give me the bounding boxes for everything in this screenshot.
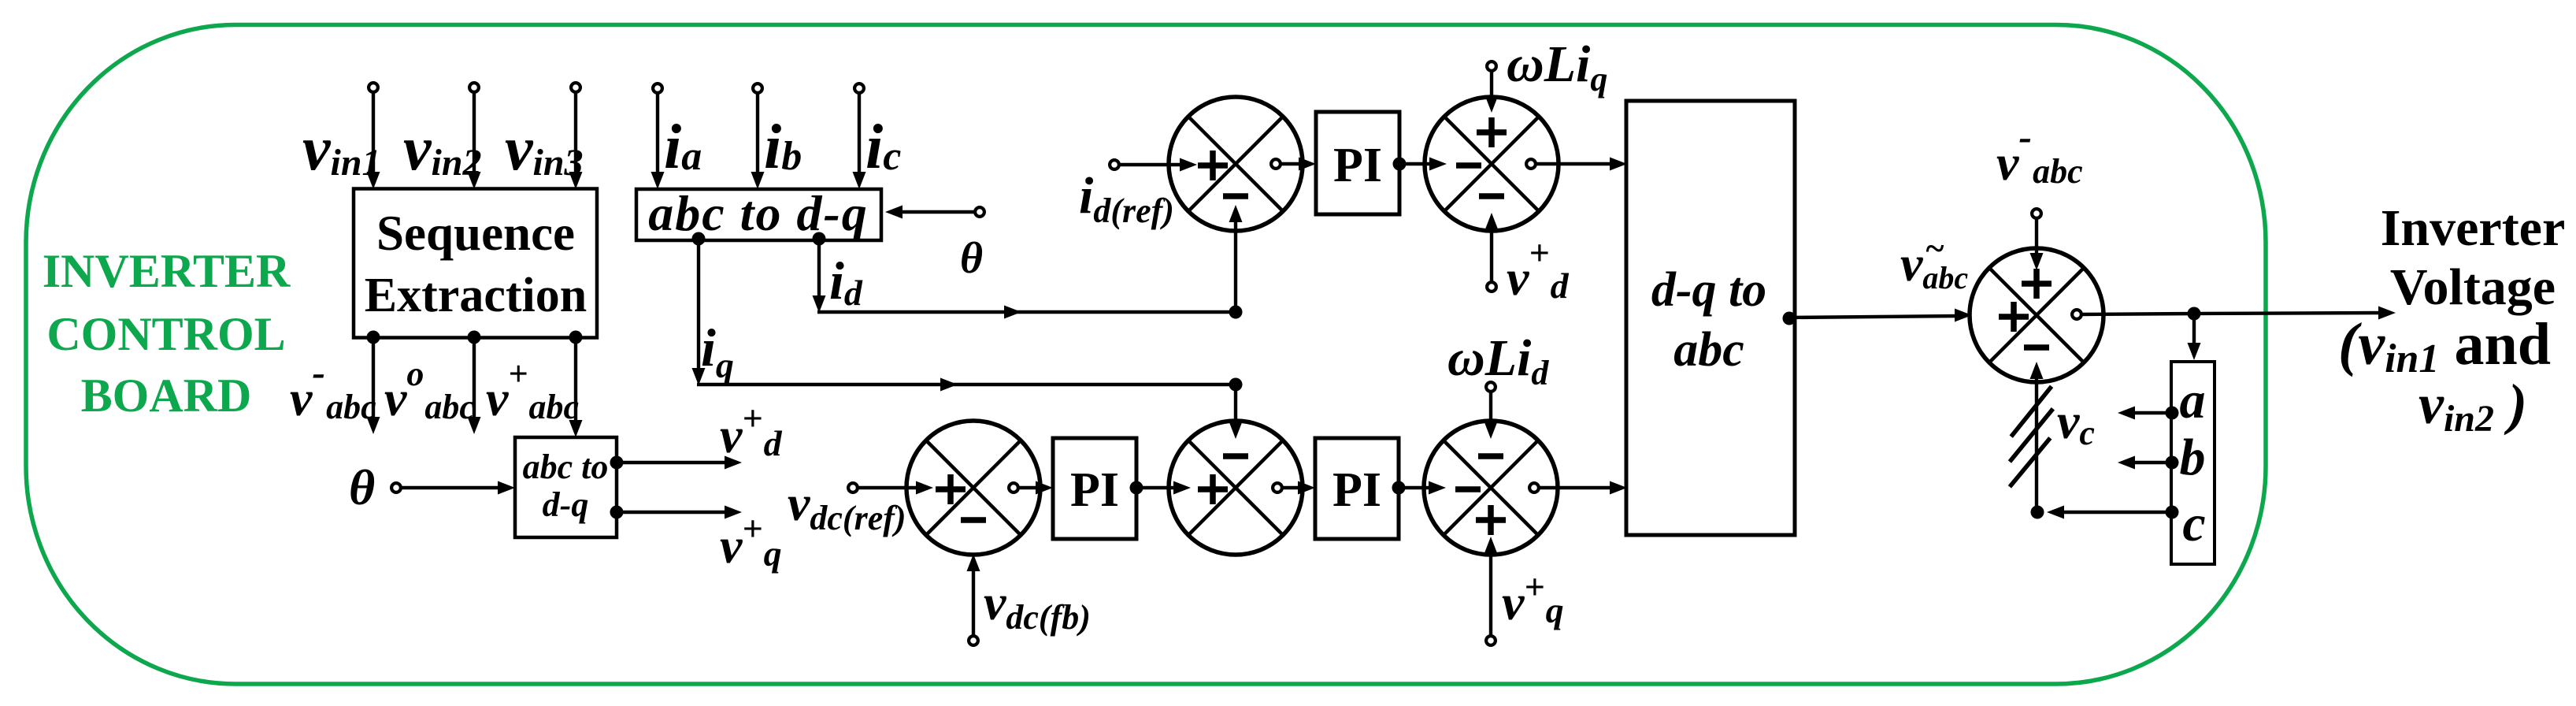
summing junction S6 (output voltage sum) bbox=[1970, 248, 2103, 382]
terminal v+d compensation input bbox=[1487, 282, 1496, 292]
wire S2 to d-q to abc block bbox=[1536, 158, 1627, 171]
wire S1 to PI U1 bbox=[1281, 158, 1316, 171]
node PI U3 output bbox=[1392, 481, 1406, 495]
svg-text:vin1: vin1 bbox=[302, 114, 381, 184]
svg-text:v+q: v+q bbox=[720, 508, 782, 574]
node terminal b bbox=[2166, 456, 2179, 470]
node iq corner junction bbox=[1229, 378, 1243, 392]
summing junction S4 (iq error) bbox=[1169, 421, 1303, 555]
svg-text:v-abc: v-abc bbox=[1996, 114, 2083, 191]
wire S4 to PI U3 bbox=[1282, 481, 1315, 495]
svg-text:id: id bbox=[829, 251, 863, 313]
wire S6 output to inverter bbox=[2081, 307, 2396, 320]
terminal vdc(ref) input bbox=[848, 483, 858, 492]
svg-text:abc to: abc to bbox=[523, 448, 609, 486]
node d-q to abc output bbox=[1783, 312, 1796, 325]
svg-text:θ: θ bbox=[960, 234, 983, 283]
terminal v-abc input top right bbox=[2032, 209, 2041, 218]
label INVERTER CONTROL BOARD bbox=[43, 245, 291, 422]
wire vin3 into Sequence Extraction bbox=[569, 92, 583, 189]
wire vin1 into Sequence Extraction bbox=[367, 92, 380, 189]
node PI U1 output bbox=[1393, 158, 1407, 171]
wire id(ref) into summing junction S1 bbox=[1119, 158, 1197, 172]
svg-text:ωLid: ωLid bbox=[1447, 329, 1549, 392]
node v+d output of voltage transform bbox=[610, 456, 624, 470]
wire PI U2 to summing junction S4 bbox=[1136, 481, 1191, 495]
terminal S5 output node bbox=[1529, 483, 1539, 492]
summing junction S5 (q-axis decoupling) bbox=[1424, 421, 1558, 555]
wire vdc(ref) into summing junction S3 bbox=[858, 481, 933, 495]
block d-q to abc bbox=[1626, 101, 1795, 535]
terminal S1 output node bbox=[1271, 159, 1281, 169]
svg-text:INVERTER: INVERTER bbox=[43, 245, 291, 297]
terminal theta input for current transform bbox=[975, 207, 984, 217]
svg-text:CONTROL: CONTROL bbox=[46, 308, 285, 360]
svg-text:Extraction: Extraction bbox=[365, 269, 587, 322]
wire vdc(fb) into summing junction S3 bbox=[967, 554, 980, 636]
terminal wLiq input bbox=[1487, 61, 1496, 71]
wire ia into abc-to-dq bbox=[651, 93, 665, 189]
svg-text:ia: ia bbox=[664, 113, 702, 182]
terminal vin2 input bbox=[469, 83, 479, 92]
svg-text:a: a bbox=[2180, 372, 2206, 429]
wire v+q into summing junction S5 from below bbox=[1484, 537, 1498, 636]
terminal vin3 input bbox=[571, 83, 580, 92]
terminal theta input left bbox=[391, 483, 401, 492]
svg-text:Inverter: Inverter bbox=[2381, 199, 2566, 257]
terminal S3 output node bbox=[1009, 483, 1018, 492]
svg-text:PI: PI bbox=[1332, 463, 1381, 517]
block Sequence Extraction bbox=[354, 189, 597, 338]
svg-text:id(ref): id(ref) bbox=[1079, 167, 1174, 230]
block PI U3 (q-axis current controller) bbox=[1315, 438, 1399, 539]
terminal v+q compensation input bbox=[1486, 636, 1496, 645]
svg-text:vdc(fb): vdc(fb) bbox=[984, 574, 1091, 637]
block abc to d-q (voltage transform) bbox=[515, 437, 617, 537]
block abc to d-q (current transform) bbox=[636, 185, 881, 241]
wire d-q to abc output to summing junction S6 bbox=[1789, 309, 1972, 322]
svg-text:Voltage: Voltage bbox=[2390, 258, 2556, 316]
svg-text:voabc: voabc bbox=[384, 355, 475, 426]
svg-text:(vin1 and: (vin1 and bbox=[2338, 311, 2551, 381]
terminal S6 output node bbox=[2072, 310, 2081, 319]
svg-text:v+q: v+q bbox=[1502, 567, 1564, 630]
svg-text:v-abc: v-abc bbox=[290, 350, 376, 426]
wire v0abc output arrow bbox=[468, 337, 481, 434]
svg-text:Sequence: Sequence bbox=[376, 206, 575, 261]
svg-text:ib: ib bbox=[764, 113, 802, 182]
wire phase a output bbox=[2118, 407, 2172, 420]
wire v-abc into summing junction S6 bbox=[2030, 218, 2044, 270]
terminal wLid input bbox=[1486, 382, 1496, 392]
svg-text:b: b bbox=[2180, 429, 2206, 486]
node id corner junction bbox=[1229, 306, 1243, 319]
wire iq from transform to summing junction S4 bbox=[692, 239, 1243, 439]
node iq output of current transform bbox=[692, 232, 706, 246]
terminal S4 output node bbox=[1273, 483, 1282, 492]
node inverter output junction bbox=[2188, 307, 2201, 321]
wire wLiq into summing junction S2 bbox=[1485, 71, 1499, 113]
svg-text:v+d: v+d bbox=[720, 398, 783, 463]
svg-text:d-q to: d-q to bbox=[1651, 263, 1766, 317]
summing junction S3 (vdc error) bbox=[906, 421, 1040, 555]
node v+q output of voltage transform bbox=[610, 506, 624, 519]
hatch marks on vc line bbox=[2010, 386, 2053, 487]
wire S3 to PI U2 bbox=[1018, 481, 1053, 495]
label v~abc bbox=[1900, 229, 1968, 295]
block abc terminal strip bbox=[2171, 362, 2215, 564]
svg-text:v+d: v+d bbox=[1507, 232, 1570, 306]
terminal ib input bbox=[753, 84, 762, 93]
wire from terminal c to vc line bbox=[2047, 506, 2172, 519]
node id output of current transform bbox=[813, 232, 826, 246]
node terminal a bbox=[2166, 407, 2179, 420]
node at Sequence Extraction output v0abc bbox=[468, 331, 481, 344]
wire vc into summing junction S6 from below bbox=[2030, 362, 2044, 512]
terminal ic input bbox=[854, 84, 864, 93]
svg-text:vc: vc bbox=[2057, 393, 2095, 452]
wire ib into abc-to-dq bbox=[751, 93, 765, 189]
node PI U2 output bbox=[1130, 481, 1143, 495]
node vc corner junction bbox=[2031, 506, 2044, 519]
svg-text:~: ~ bbox=[1925, 229, 1944, 268]
node terminal c bbox=[2166, 506, 2179, 519]
terminal vdc(fb) input bbox=[969, 636, 978, 645]
wire v+d output arrow bbox=[617, 456, 742, 470]
terminal ia input bbox=[653, 84, 662, 93]
wire PI U3 to summing junction S5 bbox=[1399, 481, 1446, 495]
summing junction S1 (id error) bbox=[1169, 97, 1303, 231]
wire S5 to d-q to abc block bbox=[1539, 481, 1627, 495]
svg-text:d-q: d-q bbox=[543, 485, 589, 524]
label Inverter Voltage output bbox=[2338, 199, 2565, 440]
svg-text:PI: PI bbox=[1070, 463, 1119, 517]
svg-text:v+abc: v+abc bbox=[486, 355, 579, 426]
svg-text:ωLiq: ωLiq bbox=[1507, 35, 1607, 98]
wire v+abc into abc-to-dq voltage block bbox=[569, 337, 583, 437]
wire vin2 into Sequence Extraction bbox=[468, 92, 481, 189]
summing junction S2 (d-axis decoupling) bbox=[1425, 97, 1559, 231]
block PI U1 (d-axis current controller) bbox=[1316, 112, 1399, 214]
node at Sequence Extraction output v+abc bbox=[569, 331, 583, 344]
svg-text:BOARD: BOARD bbox=[81, 370, 252, 422]
svg-text:vdc(ref): vdc(ref) bbox=[788, 475, 906, 537]
svg-text:θ: θ bbox=[349, 459, 375, 515]
svg-text:ic: ic bbox=[865, 113, 901, 182]
terminal vin1 input bbox=[369, 83, 378, 92]
node at Sequence Extraction output v-abc bbox=[367, 331, 380, 344]
wire id from transform to summing junction S1 bbox=[813, 205, 1243, 319]
svg-text:abc to d-q: abc to d-q bbox=[648, 185, 869, 241]
wire PI U1 to summing junction S2 bbox=[1399, 158, 1447, 171]
svg-text:iq: iq bbox=[701, 318, 734, 385]
svg-text:vin3: vin3 bbox=[505, 114, 584, 184]
block PI U2 (dc voltage controller) bbox=[1053, 438, 1136, 539]
wire v-abc output arrow bbox=[367, 337, 380, 434]
wire junction down into abc terminal strip bbox=[2188, 314, 2201, 360]
wire v+q output arrow bbox=[617, 506, 742, 519]
wire phase b output bbox=[2118, 456, 2172, 470]
wire v+d into summing junction S2 from below bbox=[1485, 213, 1499, 282]
svg-text:c: c bbox=[2182, 495, 2205, 552]
svg-text:vin2: vin2 bbox=[403, 114, 482, 184]
terminal id(ref) input bbox=[1110, 160, 1119, 169]
wire theta into abc-to-dq voltage block bbox=[401, 481, 515, 495]
wire wLid into summing junction S5 bbox=[1484, 392, 1498, 439]
svg-text:abc: abc bbox=[1673, 323, 1744, 377]
terminal S2 output node bbox=[1526, 159, 1536, 169]
svg-text:PI: PI bbox=[1333, 139, 1382, 192]
wire theta into abc-to-dq current block bbox=[885, 206, 975, 219]
svg-text:vin2 ): vin2 ) bbox=[2418, 373, 2527, 440]
wire ic into abc-to-dq bbox=[853, 93, 866, 189]
